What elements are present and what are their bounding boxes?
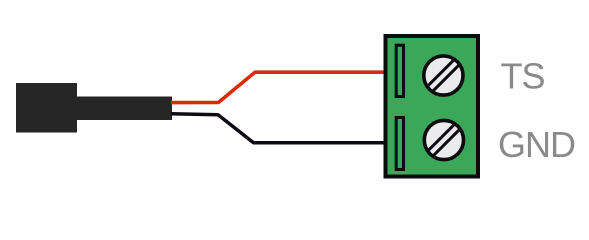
terminal slot 2 (GND) bbox=[396, 118, 403, 170]
svg-text:GND: GND bbox=[498, 124, 575, 165]
terminal block body bbox=[386, 36, 479, 177]
svg-text:TS: TS bbox=[501, 56, 545, 97]
screw 1 (TS) bbox=[420, 52, 468, 100]
sensor connector head bbox=[16, 83, 77, 133]
screw 2 (GND) bbox=[420, 116, 468, 164]
wire TS (red) bbox=[171, 72, 384, 102]
terminal slot 1 (TS) bbox=[396, 45, 403, 96]
sensor connector body bbox=[77, 97, 172, 121]
wire GND (black) bbox=[171, 114, 384, 143]
